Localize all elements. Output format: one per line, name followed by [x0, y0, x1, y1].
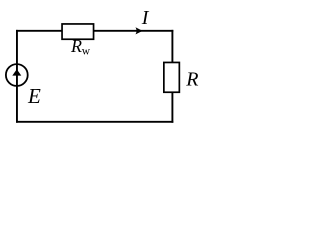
svg-text:E: E: [27, 84, 41, 108]
svg-text:R: R: [185, 69, 198, 91]
svg-text:I: I: [141, 7, 150, 29]
